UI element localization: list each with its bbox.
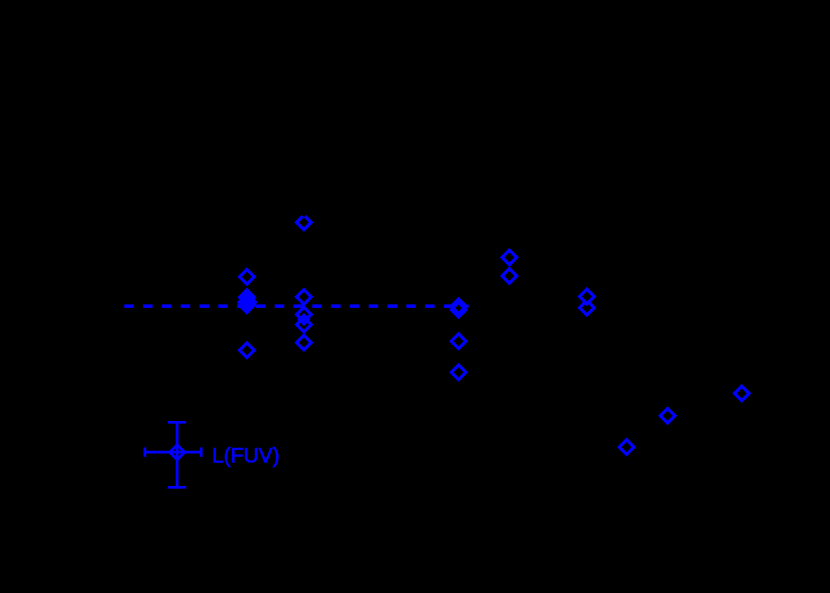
cluster blob filled diamond at (247.2,302.2) xyxy=(239,294,255,310)
double diamond marker at line end (458.6,309.7) xyxy=(451,302,466,317)
diamond marker at (303.9,342.6) xyxy=(297,335,312,350)
diamond marker at (458.6,372.3) xyxy=(451,365,466,380)
diamond marker at (509.4,276.2) xyxy=(502,269,517,284)
dashed horizontal trend line xyxy=(124,304,468,308)
legend horizontal error bar xyxy=(145,451,201,454)
diamond marker (top, clipped tip) at (303.9,222.4) xyxy=(297,200,312,229)
diamond marker at (458.6,341.2) xyxy=(451,334,466,349)
diamond marker at (626.6,447.1) xyxy=(619,440,634,455)
double diamond marker at line end (458.6,306.3) xyxy=(451,299,466,314)
diamond marker at (741.8,393.4) xyxy=(735,386,750,401)
diamond marker at (586.9,307.7) xyxy=(580,291,595,315)
legend left cap xyxy=(144,447,147,456)
cluster blob open diamond at (246.9,297.2) xyxy=(240,290,255,305)
legend diamond marker at (177.1,452.2) xyxy=(170,445,185,460)
legend label L(FUV) xyxy=(212,444,280,467)
diamond marker at (509.4,257.2) xyxy=(502,250,517,265)
diamond marker at (667.6,415.8) xyxy=(660,409,675,424)
legend vertical error bar xyxy=(176,422,179,487)
diamond marker at (303.9,314.5) xyxy=(297,307,312,322)
diamond marker at (303.9,324.6) xyxy=(297,317,312,332)
diamond marker at (303.9,296.9) xyxy=(297,290,312,305)
cluster blob filled diamond at (246.9,305.2) xyxy=(240,298,255,313)
legend bottom cap xyxy=(168,486,186,489)
legend top cap xyxy=(168,421,186,424)
diamond marker at (246.9,350.2) xyxy=(240,343,255,358)
svg-text:L(FUV): L(FUV) xyxy=(212,444,280,467)
diamond marker at (586.9,296.5) xyxy=(580,289,595,304)
small filled diamond at (303.9,319.5) xyxy=(299,315,308,324)
diamond marker at (246.9,276.8) xyxy=(240,270,255,285)
legend right cap xyxy=(200,447,203,456)
